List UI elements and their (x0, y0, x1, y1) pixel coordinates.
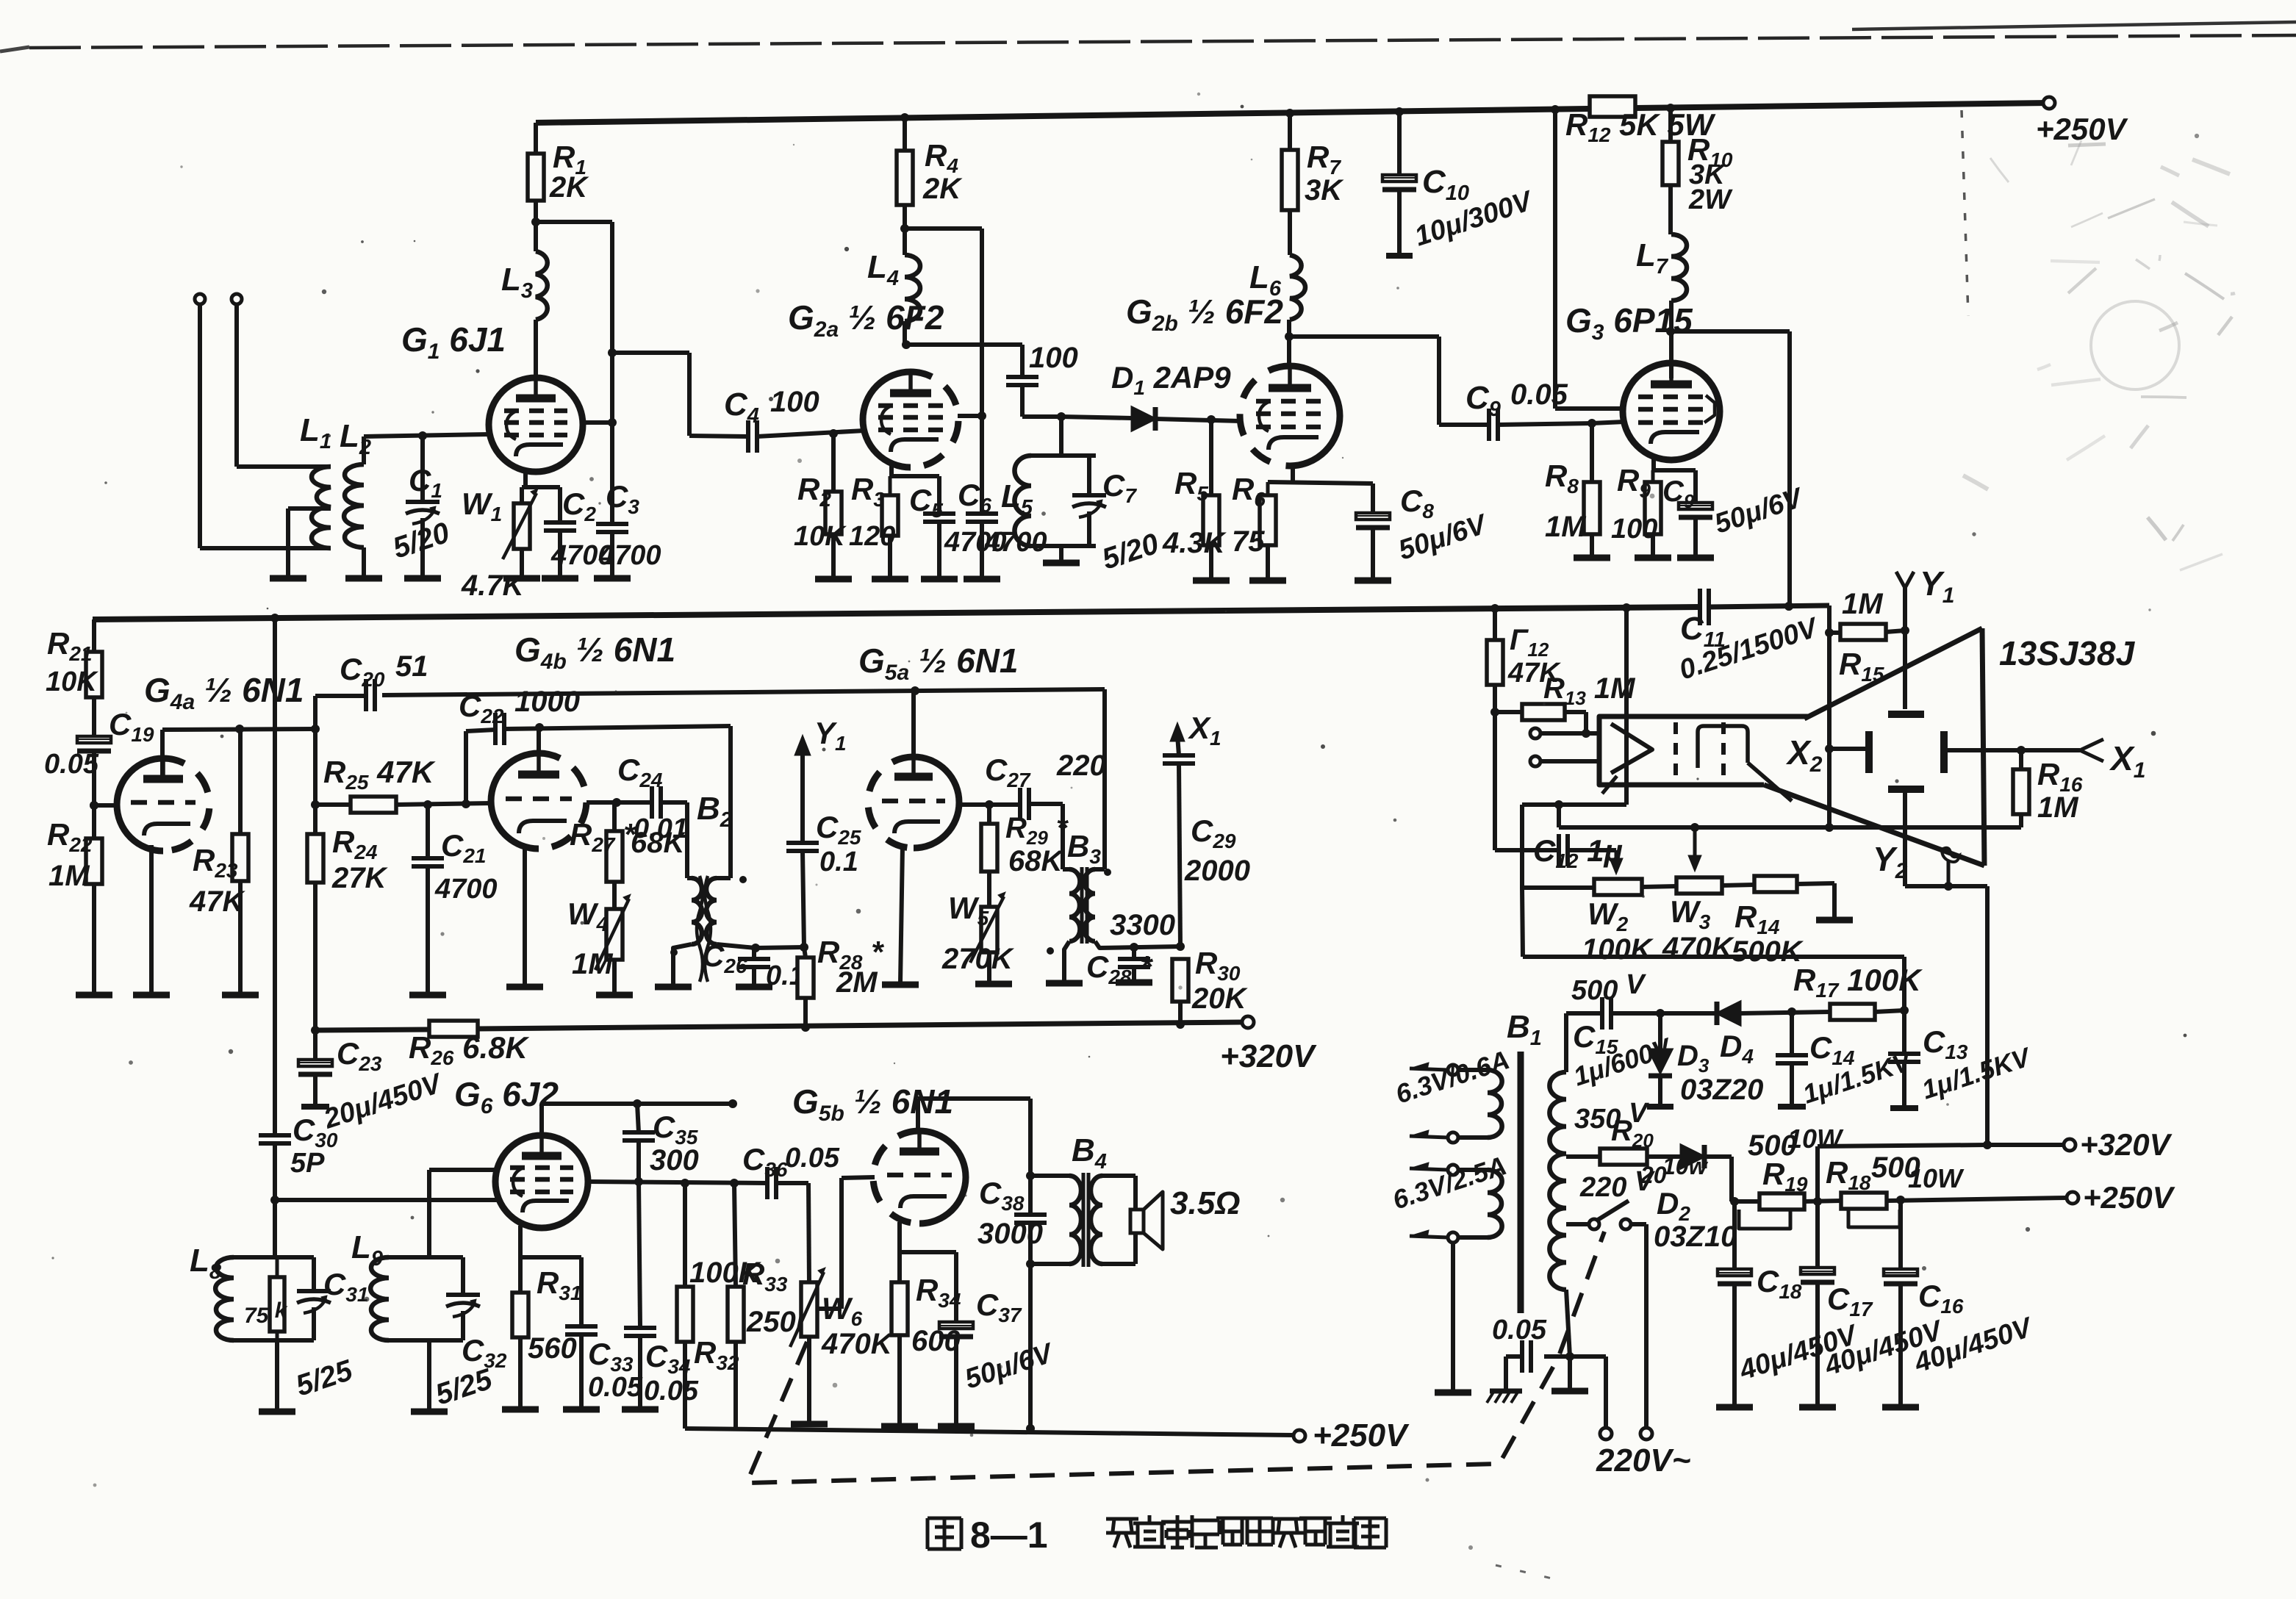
ground under L2 (345, 575, 382, 582)
resistor R25 47K (315, 797, 491, 813)
label W4 (567, 896, 609, 935)
label R10 (1687, 132, 1733, 171)
label G4a 1/2 6N1 (144, 671, 304, 714)
svg-text:X1: X1 (1188, 711, 1221, 750)
svg-text:B4: B4 (1072, 1132, 1107, 1174)
label 500 10W above R19 (1748, 1124, 1844, 1162)
label W5 (948, 891, 989, 930)
svg-text:G5b ½ 6N1: G5b ½ 6N1 (792, 1082, 953, 1126)
svg-text:R24: R24 (332, 824, 378, 863)
label C9b (1662, 475, 1695, 512)
wire w2 row left drop (1522, 805, 1594, 888)
label 0.25/1500V (1676, 612, 1823, 686)
svg-text:+250V: +250V (1313, 1417, 1410, 1454)
svg-text:100: 100 (1611, 514, 1657, 545)
speaker 3.5ohm (1130, 1185, 1241, 1249)
svg-text:Y2: Y2 (1873, 840, 1908, 883)
label 13SJ38J (1999, 634, 2136, 672)
label W6 (822, 1291, 863, 1330)
label D3 (1677, 1040, 1710, 1077)
label R24 (332, 824, 378, 863)
label R30 (1195, 946, 1241, 985)
label L1 (300, 412, 331, 453)
capacitor C11 0.25/1500V (1700, 589, 1709, 625)
label R2 (797, 472, 831, 511)
svg-text:C3: C3 (606, 479, 639, 518)
CRT funnel bottom (1764, 785, 1984, 866)
label C3 (606, 479, 639, 518)
wire G4b anode lead (537, 727, 541, 753)
resistor R21 10K (86, 619, 102, 735)
label R28 (817, 935, 884, 974)
wire second bus rail (93, 607, 1700, 619)
label B4 (1072, 1132, 1107, 1174)
ground under B1 common (1551, 1388, 1588, 1395)
svg-text:1M: 1M (1545, 511, 1587, 543)
diode D4 (1717, 1002, 1740, 1025)
resistor R17 100K (1830, 1004, 1904, 1020)
label 350V tap (1574, 1098, 1649, 1135)
svg-text:R9: R9 (1617, 463, 1651, 502)
svg-text:100K: 100K (1582, 933, 1654, 966)
svg-text:L6: L6 (1249, 259, 1282, 301)
label 100K at W2 (1582, 933, 1654, 966)
scan crease artifact (1496, 110, 1968, 1580)
capacitor C18 40u/450V (1718, 1201, 1751, 1406)
capacitor C19 0.05 (77, 736, 111, 810)
label B1 (1507, 1009, 1542, 1050)
resistor R6 75 (1260, 482, 1276, 579)
label R12b 47K (1507, 624, 1561, 689)
label C24 (617, 752, 663, 791)
inductor L3 (536, 222, 548, 378)
label C7 (1102, 468, 1137, 507)
svg-text:X2: X2 (1785, 733, 1823, 777)
capacitor C15 1u/600V (1602, 997, 1611, 1030)
ground under C18 (1716, 1404, 1753, 1411)
terminal +250V bottom (1294, 1417, 1410, 1454)
label 47K under R23 (189, 885, 245, 918)
wire rail drop x2213 (1624, 608, 1629, 805)
terminal mains right (1640, 1428, 1652, 1440)
ground under W1 (503, 575, 540, 582)
label 4700 under C6 (984, 527, 1047, 558)
label R25 47K (323, 755, 436, 794)
transformer B1 core (1518, 1052, 1524, 1313)
caption char 3 (1192, 1515, 1219, 1548)
caption char 0 (1106, 1519, 1138, 1548)
label G4b 1/2 6N1 (514, 630, 675, 674)
transformer B4 secondary (1091, 1176, 1136, 1264)
wire X2 branch vertical (1825, 606, 1834, 827)
ground under C28 (1116, 980, 1152, 986)
label B3 (1067, 829, 1101, 868)
tube G5a half 6N1 (868, 757, 959, 848)
wire boost line to R17 (1522, 888, 1909, 1015)
svg-text:W5: W5 (948, 891, 989, 930)
label 75k (244, 1298, 288, 1328)
label R29 (1005, 812, 1069, 849)
CRT X1 plate (1940, 731, 1948, 773)
ground under R31 (502, 1406, 539, 1413)
wire 500V tap (1566, 1013, 1602, 1072)
svg-text:27K: 27K (331, 862, 388, 894)
wire G3 cathode (1653, 459, 1696, 503)
svg-text:1M: 1M (49, 860, 90, 892)
CRT gun box (1599, 716, 1808, 785)
svg-text:R17 100K: R17 100K (1793, 963, 1923, 1002)
wire G4a anode (162, 725, 320, 779)
potentiometer W6 470K (790, 1268, 825, 1423)
svg-text:20K: 20K (1191, 982, 1248, 1015)
capacitor 0.05 line filter (1506, 1340, 1570, 1390)
svg-text:C2: C2 (562, 486, 596, 525)
svg-text:L9: L9 (351, 1229, 383, 1271)
svg-text:G1 6J1: G1 6J1 (401, 320, 506, 364)
caption char 1 (1133, 1515, 1166, 1547)
wire L9 tank ground (427, 1340, 431, 1410)
svg-text:75: 75 (1232, 525, 1265, 558)
tank L9 box (389, 1257, 463, 1340)
svg-text:R30: R30 (1195, 946, 1241, 985)
svg-text:C19: C19 (109, 707, 154, 746)
svg-text:0.05: 0.05 (44, 749, 99, 780)
svg-text:4700: 4700 (434, 874, 498, 905)
wire X1 lead (1948, 739, 2103, 761)
svg-text:L8: L8 (190, 1243, 222, 1284)
svg-text:C12 1μ: C12 1μ (1533, 833, 1623, 872)
inductor L2 (344, 436, 364, 577)
svg-text:100: 100 (770, 386, 819, 418)
wire B2 primary bottom (717, 943, 808, 952)
transformer B2 (692, 876, 731, 982)
label 1u/1.5KV at C14 (1799, 1046, 1917, 1110)
svg-text:W1: W1 (462, 486, 502, 525)
label C14 (1809, 1030, 1855, 1069)
potentiometer W3 470K (1676, 877, 1754, 894)
label 68K at R29 (1008, 845, 1064, 877)
label C9 (1466, 380, 1501, 421)
capacitor C12 1u (1559, 834, 1568, 866)
label R5 (1174, 466, 1208, 505)
label C13 (1923, 1024, 1968, 1063)
wire bus drop x374 (273, 618, 277, 1134)
label 5/20 (389, 517, 453, 565)
ground under G5a cathode (882, 982, 919, 988)
svg-text:C20: C20 (340, 652, 385, 691)
label 0.05 at C33 (588, 1372, 643, 1403)
inductor L7 (1666, 234, 1687, 378)
svg-text:D2: D2 (1657, 1186, 1690, 1225)
capacitor C9b 50u/6V cathode (1679, 503, 1712, 556)
potentiometer W5 270K (970, 872, 1005, 982)
sync input terminal lower (1530, 756, 1599, 766)
tube G4a half 6N1 (117, 758, 209, 851)
tube G2b half 6F2 (1240, 366, 1340, 466)
label R8 (1545, 459, 1579, 497)
ground under C16 (1882, 1404, 1919, 1411)
svg-text:C9: C9 (1466, 380, 1501, 421)
svg-text:W4: W4 (567, 896, 609, 935)
label 50u/6V at C8 (1395, 509, 1492, 567)
caption char 7 (1299, 1518, 1332, 1545)
svg-text:C21: C21 (441, 828, 487, 867)
dashed mechanical link (747, 1232, 1604, 1483)
wire B3 primary bottom (1095, 941, 1185, 952)
caption 图8-1 (928, 1514, 1048, 1556)
caption char 5 (1247, 1518, 1273, 1545)
label D4 (1720, 1029, 1754, 1068)
ground under C1 (404, 575, 441, 582)
label 100 interstage (1029, 342, 1078, 374)
ground under R3 (872, 576, 908, 583)
label B2 (697, 791, 732, 832)
svg-text:W3: W3 (1670, 894, 1711, 933)
svg-text:G5a ½ 6N1: G5a ½ 6N1 (858, 642, 1018, 685)
label R20 (1611, 1115, 1654, 1151)
svg-text:4700: 4700 (944, 527, 1007, 558)
label C8 (1400, 484, 1434, 522)
svg-text:L2: L2 (340, 418, 371, 459)
wire x429 vertical (311, 696, 320, 1035)
capacitor C10 10u/300V (1382, 112, 1416, 256)
svg-text:B3: B3 (1067, 829, 1101, 868)
capacitor C24 0.01 (652, 786, 661, 819)
ground under W6 (791, 1421, 828, 1428)
resistor R4 2K (897, 118, 913, 233)
switch S mains (1589, 1201, 1631, 1229)
svg-text:C7: C7 (1102, 468, 1137, 507)
svg-text:5/20: 5/20 (389, 517, 453, 565)
label R3 (851, 472, 885, 511)
wire R4 node to C6 top (905, 229, 986, 514)
antenna terminal left (195, 294, 205, 548)
antenna terminal right (232, 294, 242, 467)
inductor L6 (1285, 255, 1305, 341)
label R27 (570, 817, 636, 856)
label C38 (979, 1176, 1025, 1215)
svg-text:47K: 47K (189, 885, 245, 918)
ground under R8 (1574, 555, 1610, 561)
label C20 (340, 652, 385, 691)
label C4 (724, 387, 759, 428)
terminal +320V mid (1220, 1016, 1317, 1074)
wire B3 secondary bottom to ground (1064, 941, 1069, 982)
label W1 (462, 486, 502, 525)
capacitor C5 4700 (923, 514, 955, 578)
label 50u/6V at C37 (961, 1337, 1058, 1395)
label X2 (1785, 733, 1823, 777)
transformer B4 primary (1069, 1176, 1081, 1264)
wire X1 branch with C29 (1163, 722, 1195, 946)
label 20K (1191, 982, 1248, 1015)
svg-text:8—1: 8—1 (970, 1514, 1048, 1556)
svg-text:R8: R8 (1545, 459, 1579, 497)
diode D3 03Z20 (1647, 1013, 1673, 1107)
svg-text:5/20: 5/20 (1098, 528, 1163, 576)
wire L1 tap to ground (288, 509, 331, 577)
svg-text:Y1: Y1 (814, 716, 847, 755)
diode D1 2AP9 (1132, 407, 1155, 431)
label R4 (925, 138, 958, 177)
svg-text:B2: B2 (697, 791, 732, 832)
resistor R2 10K (825, 434, 842, 578)
svg-text:C31: C31 (323, 1267, 369, 1306)
label G1 6J1 (401, 320, 506, 364)
potentiometer W1 4.7K (503, 487, 538, 577)
resistor R34 600 (892, 1252, 908, 1425)
CRT filament (1602, 724, 1652, 794)
label C19 (109, 707, 154, 746)
preset bracket R19 (1739, 1210, 1790, 1229)
label 250K (746, 1306, 819, 1338)
label D2 (1657, 1186, 1690, 1225)
wire D1 to G2b grid (1155, 415, 1241, 424)
ground under C17 (1799, 1404, 1836, 1411)
tube G4b half 6N1 (491, 753, 586, 849)
polarity dot B2 top right (739, 876, 747, 883)
svg-text:B1: B1 (1507, 1009, 1542, 1050)
ground under C21 (409, 992, 446, 999)
wire G3 screen feed from rail (1555, 109, 1626, 409)
wire C22 branch (466, 730, 495, 804)
capacitor C2 4700 (544, 487, 576, 577)
label 1u/1.5KV at C13 (1918, 1041, 2036, 1105)
label 220 at C27 (1056, 750, 1106, 782)
chassis ground (1487, 1391, 1522, 1403)
label R12 5K 5W (1565, 107, 1716, 146)
wire C27 to B3 (1029, 804, 1069, 869)
ground under W4 (596, 992, 633, 999)
svg-text:C17: C17 (1827, 1282, 1873, 1320)
scan line top (0, 22, 2296, 51)
label 0.1 at C25 (819, 847, 858, 877)
label R32 (694, 1335, 739, 1374)
capacitor C34 0.05 (624, 1182, 656, 1408)
label L5 (1001, 478, 1033, 520)
capacitor C6 4700 (966, 514, 998, 578)
resistor R20 20 10W (1566, 1149, 1681, 1165)
ground under R14 (1816, 917, 1853, 924)
caption char 6 (1271, 1519, 1304, 1548)
wire Y1 lead (1896, 572, 1914, 709)
label 2K under R4 (922, 173, 963, 205)
terminal +250V top right (2036, 97, 2128, 146)
label 51 at C20 (395, 650, 428, 683)
tank L5 C7 box (1031, 417, 1096, 561)
svg-text:68K: 68K (1008, 845, 1064, 877)
label C34 (645, 1339, 691, 1378)
capacitor 100pF interstage (1006, 377, 1066, 421)
label C5 (909, 483, 943, 522)
label 10K under R21 (46, 666, 98, 697)
polarity dot B3 top right (1104, 869, 1111, 876)
label 03Z20 (1680, 1074, 1763, 1106)
svg-text:C8: C8 (1400, 484, 1434, 522)
capacitor C16 40u/450V (1884, 1200, 1917, 1406)
svg-text:R29 *: R29 * (1005, 812, 1069, 849)
label R26 6.8K (409, 1030, 530, 1069)
ground under C33 (563, 1406, 600, 1413)
ground under R34 (881, 1423, 918, 1430)
svg-text:2K: 2K (922, 173, 963, 205)
svg-text:R5: R5 (1174, 466, 1208, 505)
svg-text:100: 100 (1029, 342, 1078, 374)
resistor R28 2M (797, 947, 814, 1027)
svg-text:03Z20: 03Z20 (1680, 1074, 1763, 1106)
heater winding 6.3V 2.5A (1410, 1163, 1502, 1243)
label 4700 under C2 (550, 540, 614, 571)
capacitor C8 50u/6V (1356, 513, 1390, 579)
wire D4 to R17 (1740, 1007, 1830, 1016)
wire G2b cathode (1268, 466, 1373, 513)
label C22 (459, 689, 504, 727)
sync input terminal upper (1530, 728, 1599, 739)
label 500K (1732, 935, 1804, 968)
tank L8 box (234, 1257, 314, 1340)
label C36 (742, 1142, 788, 1181)
wire G6 screen line (588, 1177, 767, 1187)
svg-text:10K: 10K (46, 666, 98, 697)
polarity dot B2 bottom left (670, 949, 678, 956)
label 0.05 at line filter (1492, 1315, 1547, 1345)
label W3 (1670, 894, 1711, 933)
svg-text:2000: 2000 (1184, 855, 1250, 887)
ground under C34 (622, 1406, 659, 1413)
label 5/25 under L9 (431, 1362, 496, 1411)
wire B2 secondary bottom to ground (673, 944, 692, 985)
label 40u/450V at C16 (1910, 1312, 2037, 1379)
label C15 (1573, 1019, 1618, 1058)
wire C36 to W6 (776, 1183, 809, 1282)
ground under R9 (1635, 555, 1671, 561)
svg-text:500 V: 500 V (1571, 969, 1646, 1006)
wire G6 cathode (520, 1226, 581, 1325)
label 40u/450V at C18 (1735, 1319, 1862, 1387)
transformer B4 core (1083, 1173, 1088, 1267)
resistor R1 2K (528, 123, 544, 226)
label C33 (588, 1337, 634, 1376)
label 5/25 left (292, 1354, 356, 1402)
label C17 (1827, 1282, 1873, 1320)
heater winding 6.3V 0.6A (1410, 1063, 1502, 1143)
resistor R15 1M (1829, 624, 1909, 640)
label 220V~ (1596, 1442, 1690, 1478)
ground under B3 (1046, 980, 1083, 987)
svg-text:6.3V/0.6A: 6.3V/0.6A (1392, 1044, 1513, 1109)
capacitor C3 4700 (596, 524, 628, 577)
ground under G4b cathode (506, 984, 543, 991)
label 0.05 at C19 (44, 749, 99, 780)
label 1M under R16 (2037, 791, 2079, 824)
inductor L1 (312, 467, 331, 548)
label 68K (631, 827, 686, 859)
capacitor C33 0.05 (565, 1326, 598, 1408)
svg-text:C10: C10 (1422, 164, 1469, 205)
wire G2a cathode (890, 465, 939, 514)
svg-text:C16: C16 (1918, 1279, 1964, 1318)
svg-text:1000: 1000 (514, 686, 580, 718)
transformer B3 (1069, 689, 1105, 944)
label R15 (1839, 647, 1884, 686)
wire G5a cathode (900, 847, 903, 983)
svg-text:R3: R3 (851, 472, 885, 511)
CRT anode bracket (1698, 726, 1792, 801)
wire C22 to G4b anode loop (504, 723, 731, 878)
inductor L5 (1014, 456, 1031, 546)
label C16 (1918, 1279, 1964, 1318)
polarity dot B3 bottom left (1047, 947, 1054, 955)
